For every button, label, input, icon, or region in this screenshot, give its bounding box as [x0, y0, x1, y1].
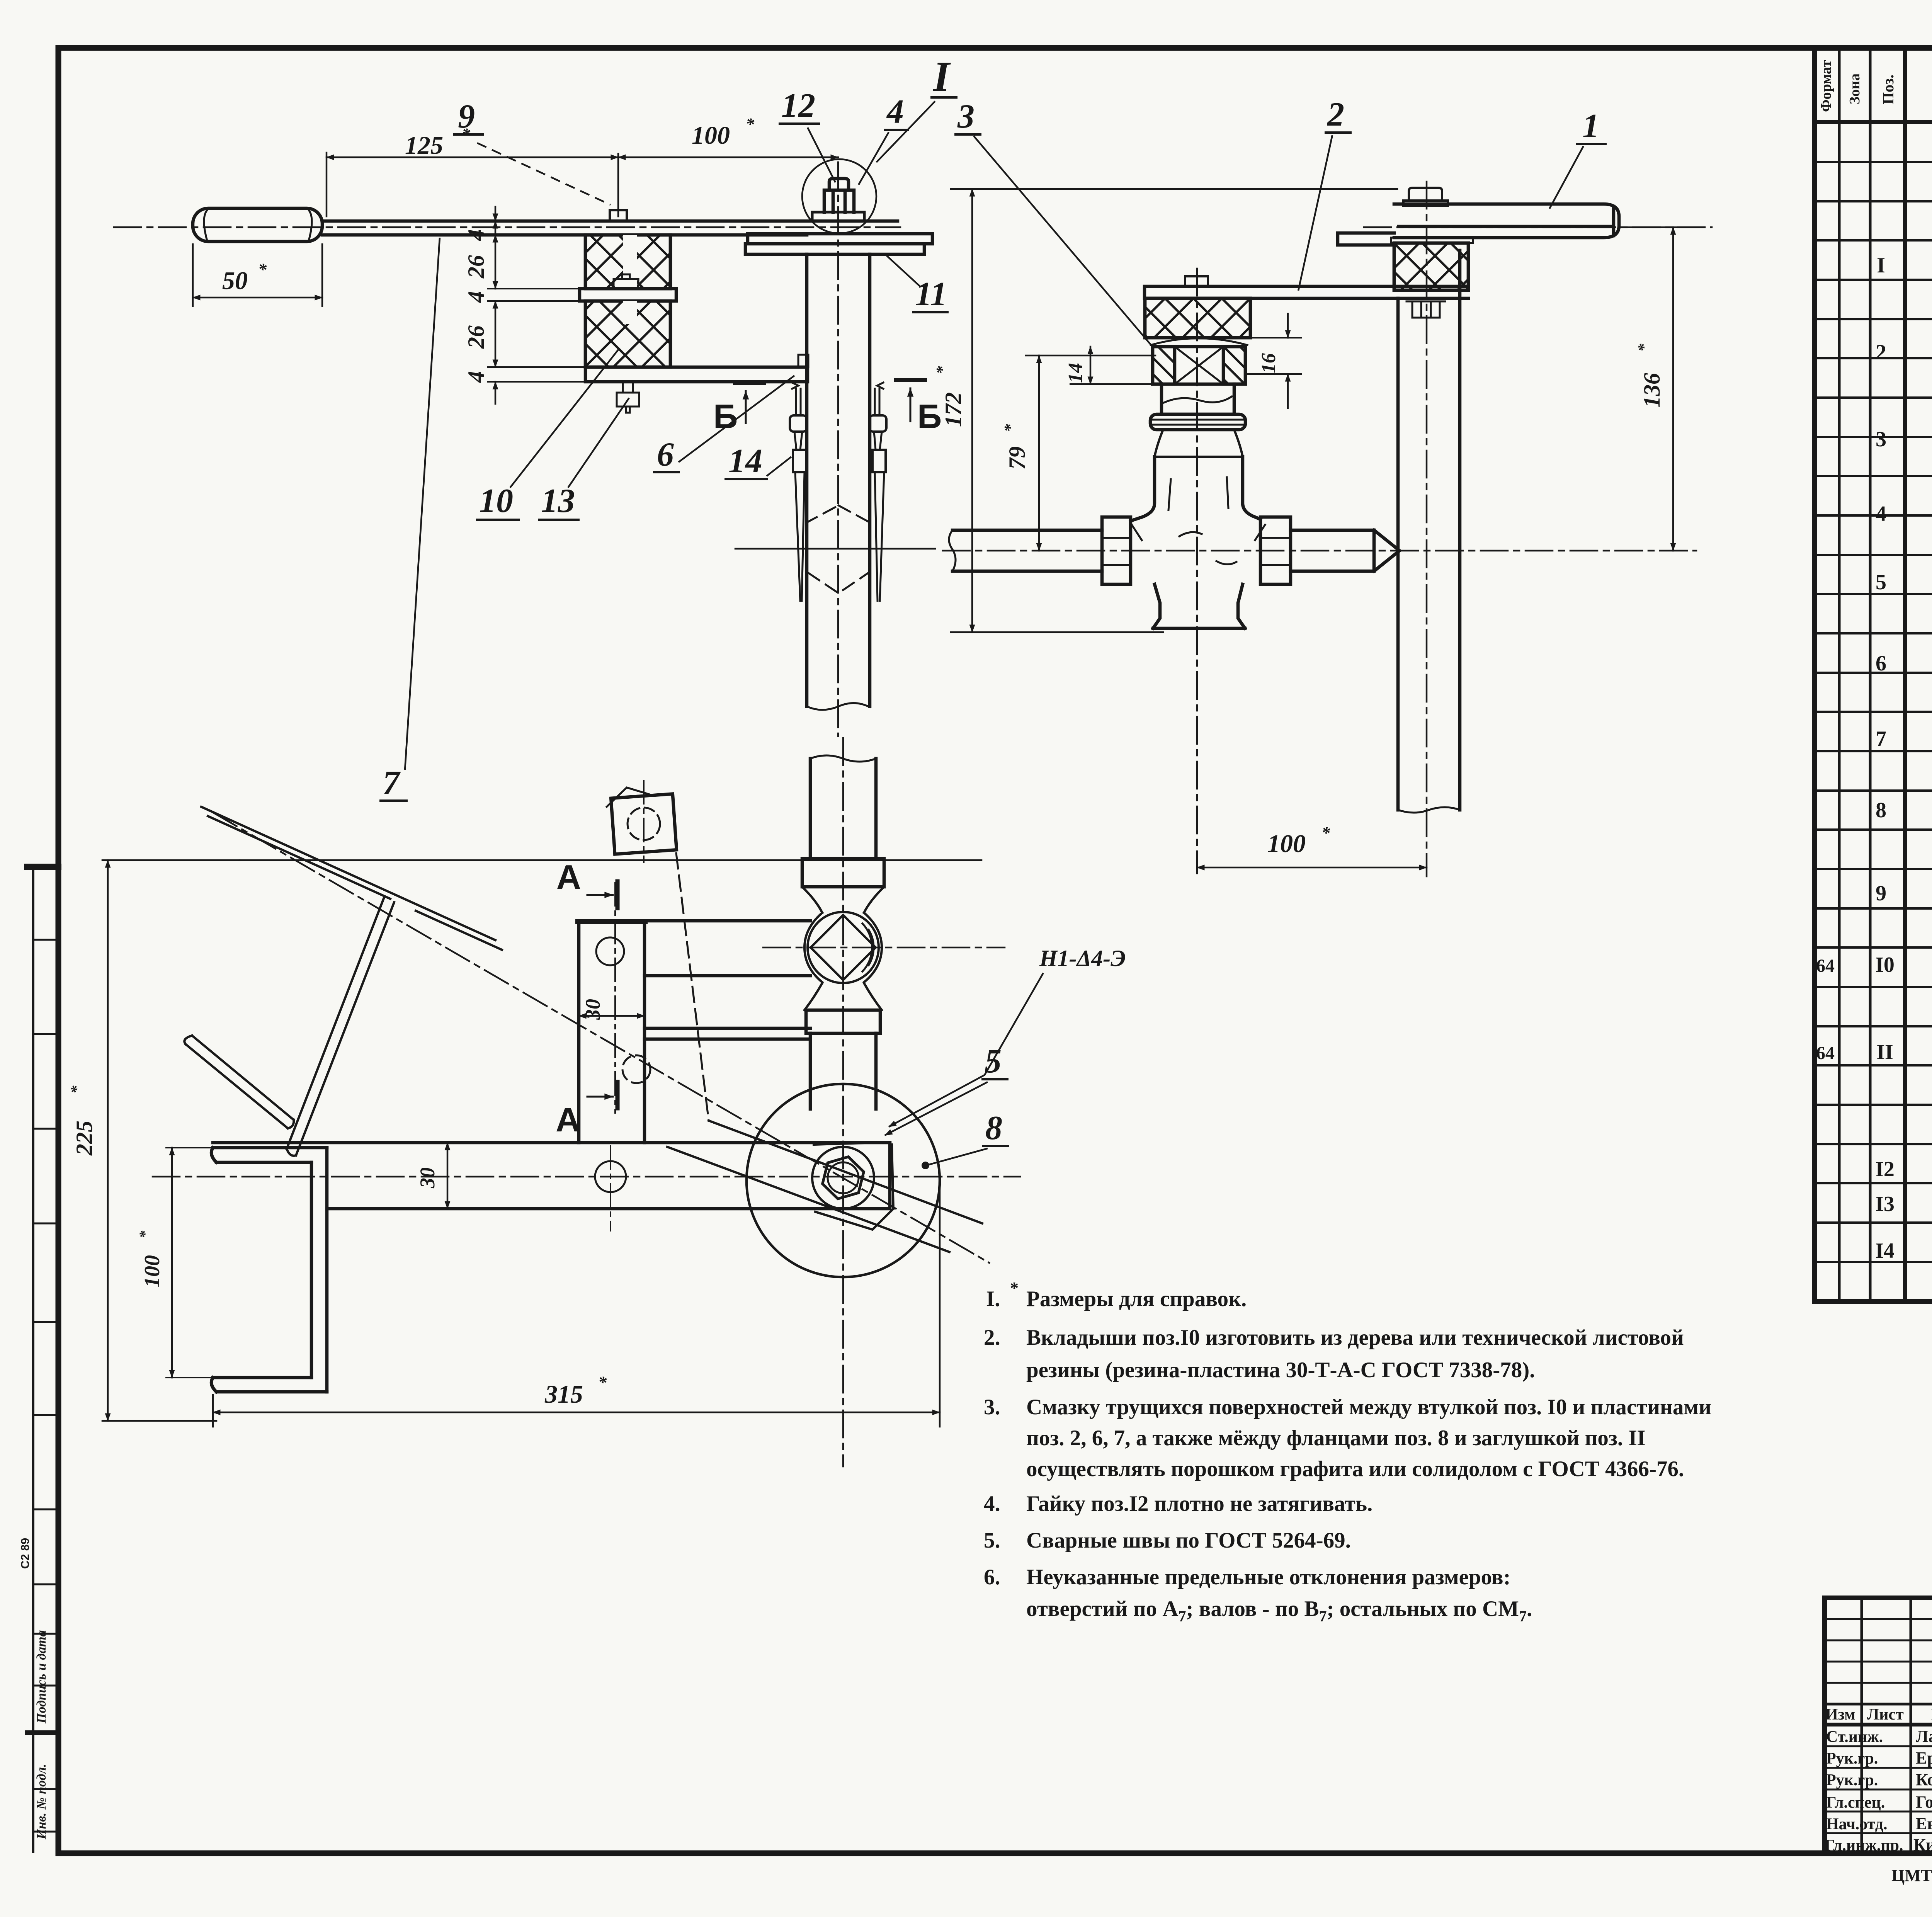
valve neck: [1155, 430, 1243, 457]
spindle poz.14 left: [792, 383, 801, 414]
svg-text:Евтушенко: Евтушенко: [1916, 1814, 1932, 1833]
title block vertical dividers left part: [1862, 1598, 1932, 1853]
bolt on lever top: [1403, 188, 1448, 206]
svg-text:5.: 5.: [984, 1528, 1000, 1553]
valve square head plan: [611, 794, 677, 854]
left margin tick marks: [33, 868, 58, 1832]
boss outline: [804, 913, 882, 982]
lever strip lower-right position: [667, 1121, 982, 1252]
svg-text:100: 100: [692, 121, 730, 150]
section A-A cut line: [614, 883, 616, 1113]
hourglass lower: [804, 983, 882, 1010]
svg-text:64: 64: [1816, 1043, 1835, 1063]
hidden hex inside pipe: [807, 505, 870, 593]
svg-text:Неуказанные предельные отклоне: Неуказанные предельные отклонения размер…: [1026, 1565, 1511, 1589]
section Б marks: [735, 381, 764, 385]
vertical pipe centerline: [1426, 182, 1428, 876]
rubber block on valve: [1145, 298, 1250, 338]
svg-text:I2: I2: [1875, 1157, 1895, 1181]
svg-text:Ларионов: Ларионов: [1916, 1727, 1932, 1746]
svg-text:C2 89: C2 89: [19, 1538, 32, 1569]
top extension line: [951, 188, 1397, 190]
svg-text:Вкладыши поз.I0 изготовить из: Вкладыши поз.I0 изготовить из дерева или…: [1026, 1325, 1684, 1350]
svg-text:*: *: [68, 1085, 86, 1094]
right coupling nut: [1260, 517, 1291, 584]
middle plate poz.13: [580, 289, 676, 301]
spindle poz.14 right: [875, 383, 883, 414]
svg-text:26: 26: [463, 325, 489, 349]
valve body: [1131, 457, 1260, 521]
svg-text:4: 4: [463, 229, 489, 241]
pipe lower segment plan: [810, 1033, 876, 1109]
svg-text:100: 100: [1267, 830, 1306, 858]
svg-text:172: 172: [940, 392, 966, 427]
table header bottom line: [1815, 120, 1932, 124]
svg-text:9: 9: [458, 98, 475, 135]
union nut lower: [806, 1010, 880, 1033]
lever centerline: [1364, 226, 1712, 228]
nut below block: [1406, 301, 1445, 318]
boss centerline: [763, 947, 1005, 949]
bar6 right tab: [798, 355, 808, 367]
pin poz.9: [610, 210, 627, 221]
svg-text:осуществлять порошком графита: осуществлять порошком графита или солидо…: [1026, 1457, 1684, 1481]
svg-text:I4: I4: [1875, 1239, 1895, 1263]
svg-text:7: 7: [383, 764, 401, 802]
svg-text:5: 5: [1876, 570, 1886, 594]
svg-text:I: I: [932, 53, 951, 100]
lower bar poz.6: [585, 367, 808, 382]
svg-text:Гл.спец.: Гл.спец.: [1826, 1794, 1885, 1812]
plate nub: [1185, 276, 1208, 286]
svg-text:Н1-Δ4-Э: Н1-Δ4-Э: [1039, 946, 1126, 971]
valve stem: [1162, 384, 1234, 414]
svg-text:ЦМТП: ЦМТП: [1891, 1866, 1932, 1885]
dimension 100 bottom: [1197, 867, 1427, 869]
svg-text:4: 4: [463, 291, 489, 303]
plate hole hidden: [622, 1055, 650, 1083]
vertical pipe right walls: [1398, 250, 1460, 810]
svg-text:поз. 2, 6, 7, а также мёжду фл: поз. 2, 6, 7, а также мёжду фланцами поз…: [1026, 1426, 1646, 1450]
dimension 136: [1672, 227, 1674, 551]
section line through pipe: [735, 548, 935, 550]
svg-text:100: 100: [140, 1255, 164, 1288]
svg-text:125: 125: [405, 131, 443, 160]
svg-text:Голец: Голец: [1916, 1793, 1932, 1812]
svg-text:Рук.гр.: Рук.гр.: [1826, 1750, 1878, 1767]
svg-text:9: 9: [1876, 881, 1886, 905]
svg-text:*: *: [1010, 1279, 1019, 1298]
svg-text:A: A: [556, 1101, 580, 1139]
svg-text:225: 225: [71, 1121, 97, 1156]
svg-text:*: *: [258, 260, 267, 279]
handle grip second position: [184, 1036, 294, 1128]
svg-text:64: 64: [1816, 956, 1835, 976]
lever diagonal centerline: [213, 813, 989, 1263]
svg-text:14: 14: [728, 442, 762, 480]
flange poz.11 plates: [745, 234, 932, 254]
long bar poz.7 plan: [213, 1143, 890, 1209]
section mark A lower: [616, 1082, 620, 1108]
lever centerline: [114, 226, 900, 228]
table column lines: [1839, 50, 1870, 1301]
detail callout circle I: [802, 159, 876, 233]
svg-text:Гл.инж.пр.: Гл.инж.пр.: [1825, 1837, 1903, 1854]
svg-text:*: *: [1635, 344, 1653, 352]
packing gland: [1153, 347, 1245, 384]
svg-text:резины (резина-пластина 30-Т-А: резины (резина-пластина 30-Т-А-С ГОСТ 73…: [1026, 1358, 1535, 1382]
lever handle strip: [287, 896, 394, 1156]
svg-text:Ст.инж.: Ст.инж.: [1826, 1728, 1883, 1746]
left margin column line: [32, 867, 34, 1852]
boss square (diamond): [811, 915, 876, 980]
title block name rows: [1825, 1746, 1932, 1833]
plate pin: [614, 274, 638, 289]
left coupling nut: [1102, 517, 1131, 584]
svg-text:*: *: [598, 1373, 607, 1392]
vertical pipe bottom: [1398, 807, 1460, 813]
svg-text:136: 136: [1639, 373, 1665, 408]
svg-text:A: A: [556, 858, 581, 896]
dimension 100 left: [171, 1148, 173, 1378]
lever bar poz.7: [322, 221, 898, 235]
svg-text:Нач.отд.: Нач.отд.: [1826, 1815, 1887, 1833]
svg-text:3: 3: [1876, 427, 1886, 451]
svg-text:3.: 3.: [984, 1395, 1000, 1419]
svg-text:отверстий по А7; валов - по В7: отверстий по А7; валов - по В7; остальны…: [1026, 1597, 1532, 1625]
boss circle: [808, 912, 879, 983]
main vertical centerline: [842, 738, 844, 1466]
svg-text:8: 8: [985, 1109, 1002, 1147]
svg-text:II: II: [1876, 1040, 1893, 1064]
pipe mid segment plan: [810, 759, 876, 859]
dimension 30 bar: [447, 1143, 449, 1209]
dimension 79: [1038, 356, 1040, 551]
dimension 315: [213, 1412, 940, 1414]
lever strip raised position: [201, 807, 502, 950]
table outer borders: [1815, 50, 1932, 1301]
svg-text:Инв. № подл.: Инв. № подл.: [34, 1764, 49, 1840]
svg-text:4: 4: [463, 371, 489, 383]
svg-text:11: 11: [915, 276, 947, 313]
top construction line: [240, 859, 981, 861]
pipe break squiggle top segment: [807, 703, 870, 710]
svg-text:Б: Б: [917, 397, 942, 435]
bar centerline horizontal: [153, 1176, 1020, 1178]
svg-text:Зона: Зона: [1847, 73, 1863, 104]
svg-text:8: 8: [1876, 798, 1886, 822]
bottom extension line 172: [951, 631, 1163, 633]
rubber block poz.10 upper: [585, 235, 670, 289]
svg-text:4: 4: [1876, 502, 1886, 526]
svg-text:30: 30: [581, 999, 604, 1020]
union nut upper: [802, 859, 884, 887]
upper strip on lever unit: [1338, 233, 1394, 245]
body skirt: [1153, 584, 1245, 628]
bar poz.2 plate: [1145, 286, 1468, 298]
upper wall strip plan: [577, 921, 810, 976]
crescent arcs: [862, 924, 874, 971]
pin poz.13 bolt below: [617, 382, 639, 413]
svg-text:2.: 2.: [984, 1325, 1000, 1350]
svg-text:16: 16: [1258, 353, 1280, 373]
body flow lines: [1132, 477, 1265, 565]
valve vertical centerline: [1196, 269, 1198, 873]
pin 9 centerline: [617, 154, 619, 216]
right pipe with point: [1291, 530, 1400, 571]
pipe walls view1: [807, 254, 870, 706]
svg-text:I0: I0: [1875, 953, 1895, 977]
dimension 50: [193, 244, 322, 306]
left pipe: [952, 530, 1102, 571]
title block horizontal lines: change table rows: [1825, 1619, 1932, 1683]
dimension 14: [1090, 347, 1092, 384]
svg-text:14: 14: [1065, 363, 1087, 383]
svg-text:Лист: Лист: [1867, 1706, 1904, 1723]
svg-text:26: 26: [463, 255, 489, 279]
svg-text:I3: I3: [1875, 1192, 1895, 1216]
svg-text:*: *: [136, 1230, 153, 1238]
hourglass upper: [802, 887, 884, 913]
svg-text:3: 3: [957, 98, 975, 135]
handle poz.7 grip: [193, 208, 322, 242]
svg-text:*: *: [934, 366, 951, 374]
svg-text:13: 13: [541, 482, 575, 520]
svg-text:Изм: Изм: [1825, 1706, 1855, 1723]
vertical plate: [577, 922, 646, 1143]
svg-text:I.: I.: [986, 1287, 1000, 1311]
svg-text:Поз.: Поз.: [1879, 75, 1897, 104]
dimension 16: [1287, 314, 1289, 338]
svg-text:Подпись и дата: Подпись и дата: [34, 1630, 49, 1724]
dimension 125: [326, 153, 328, 216]
lower wall strip plan: [645, 1028, 810, 1039]
wall bracket П-shape: [211, 1148, 327, 1162]
svg-text:4: 4: [886, 93, 904, 131]
pipe centerline view1: [837, 162, 839, 736]
svg-text:I: I: [1877, 253, 1885, 277]
dim chain 4/26/4/26/4: [495, 207, 497, 221]
svg-text:6: 6: [1876, 651, 1886, 675]
svg-text:Сварные швы по ГОСТ 5264-69.: Сварные швы по ГОСТ 5264-69.: [1026, 1528, 1351, 1553]
svg-text:7: 7: [1876, 727, 1886, 751]
bar hole: [595, 1161, 626, 1192]
title block outer border: [1825, 1598, 1932, 1853]
svg-text:6: 6: [657, 436, 674, 473]
horizontal pipe centerline: [943, 550, 1696, 552]
flange big circle poz.8: [747, 1084, 940, 1277]
svg-text:2: 2: [1327, 96, 1344, 133]
hex nut with washer circle: [812, 1147, 874, 1209]
bolt nut poz.12 on flange: [812, 212, 864, 221]
svg-text:Рук.гр.: Рук.гр.: [1826, 1771, 1878, 1789]
svg-text:4.: 4.: [984, 1492, 1000, 1516]
svg-text:Косминская: Косминская: [1916, 1770, 1932, 1789]
svg-text:*: *: [1002, 424, 1019, 432]
svg-text:2: 2: [1876, 340, 1886, 364]
dimension 225: [107, 860, 109, 1421]
svg-text:*: *: [1321, 823, 1330, 842]
gland lip: [1151, 338, 1247, 345]
svg-text:Гайку поз.I2 плотно не затягив: Гайку поз.I2 плотно не затягивать.: [1026, 1492, 1372, 1516]
svg-text:Б: Б: [713, 397, 738, 435]
dimension 30 plate: [579, 1015, 645, 1017]
svg-text:Киселева: Киселева: [1913, 1835, 1932, 1854]
table row lines: [1815, 162, 1932, 1262]
plate between lever and block: [1391, 238, 1473, 243]
tilted square plate: [814, 1142, 893, 1230]
section mark A upper: [616, 881, 620, 908]
svg-text:1: 1: [1582, 107, 1599, 145]
svg-text:12: 12: [781, 87, 815, 124]
svg-text:6.: 6.: [984, 1565, 1000, 1589]
valve collar rings: [1150, 414, 1245, 430]
svg-text:*: *: [746, 115, 755, 134]
svg-text:Размеры для справок.: Размеры для справок.: [1026, 1287, 1247, 1311]
rubber block poz.10 lower: [585, 301, 670, 367]
plate hole solid: [596, 937, 624, 965]
svg-text:10: 10: [479, 482, 513, 520]
svg-text:5: 5: [985, 1043, 1002, 1080]
svg-text:Ермолаев: Ермолаев: [1916, 1749, 1932, 1767]
dimension 100 top: [618, 156, 838, 158]
svg-text:Смазку трущихся поверхностей м: Смазку трущихся поверхностей между втулк…: [1026, 1395, 1711, 1419]
svg-text:30: 30: [416, 1167, 439, 1189]
svg-text:Формат: Формат: [1818, 60, 1834, 112]
svg-text:50: 50: [222, 267, 248, 295]
svg-text:79: 79: [1004, 446, 1030, 469]
svg-text:315: 315: [544, 1380, 583, 1408]
dimension 172: [971, 189, 973, 632]
lever poz.1: [1394, 204, 1619, 238]
rubber block top right: [1394, 243, 1468, 290]
